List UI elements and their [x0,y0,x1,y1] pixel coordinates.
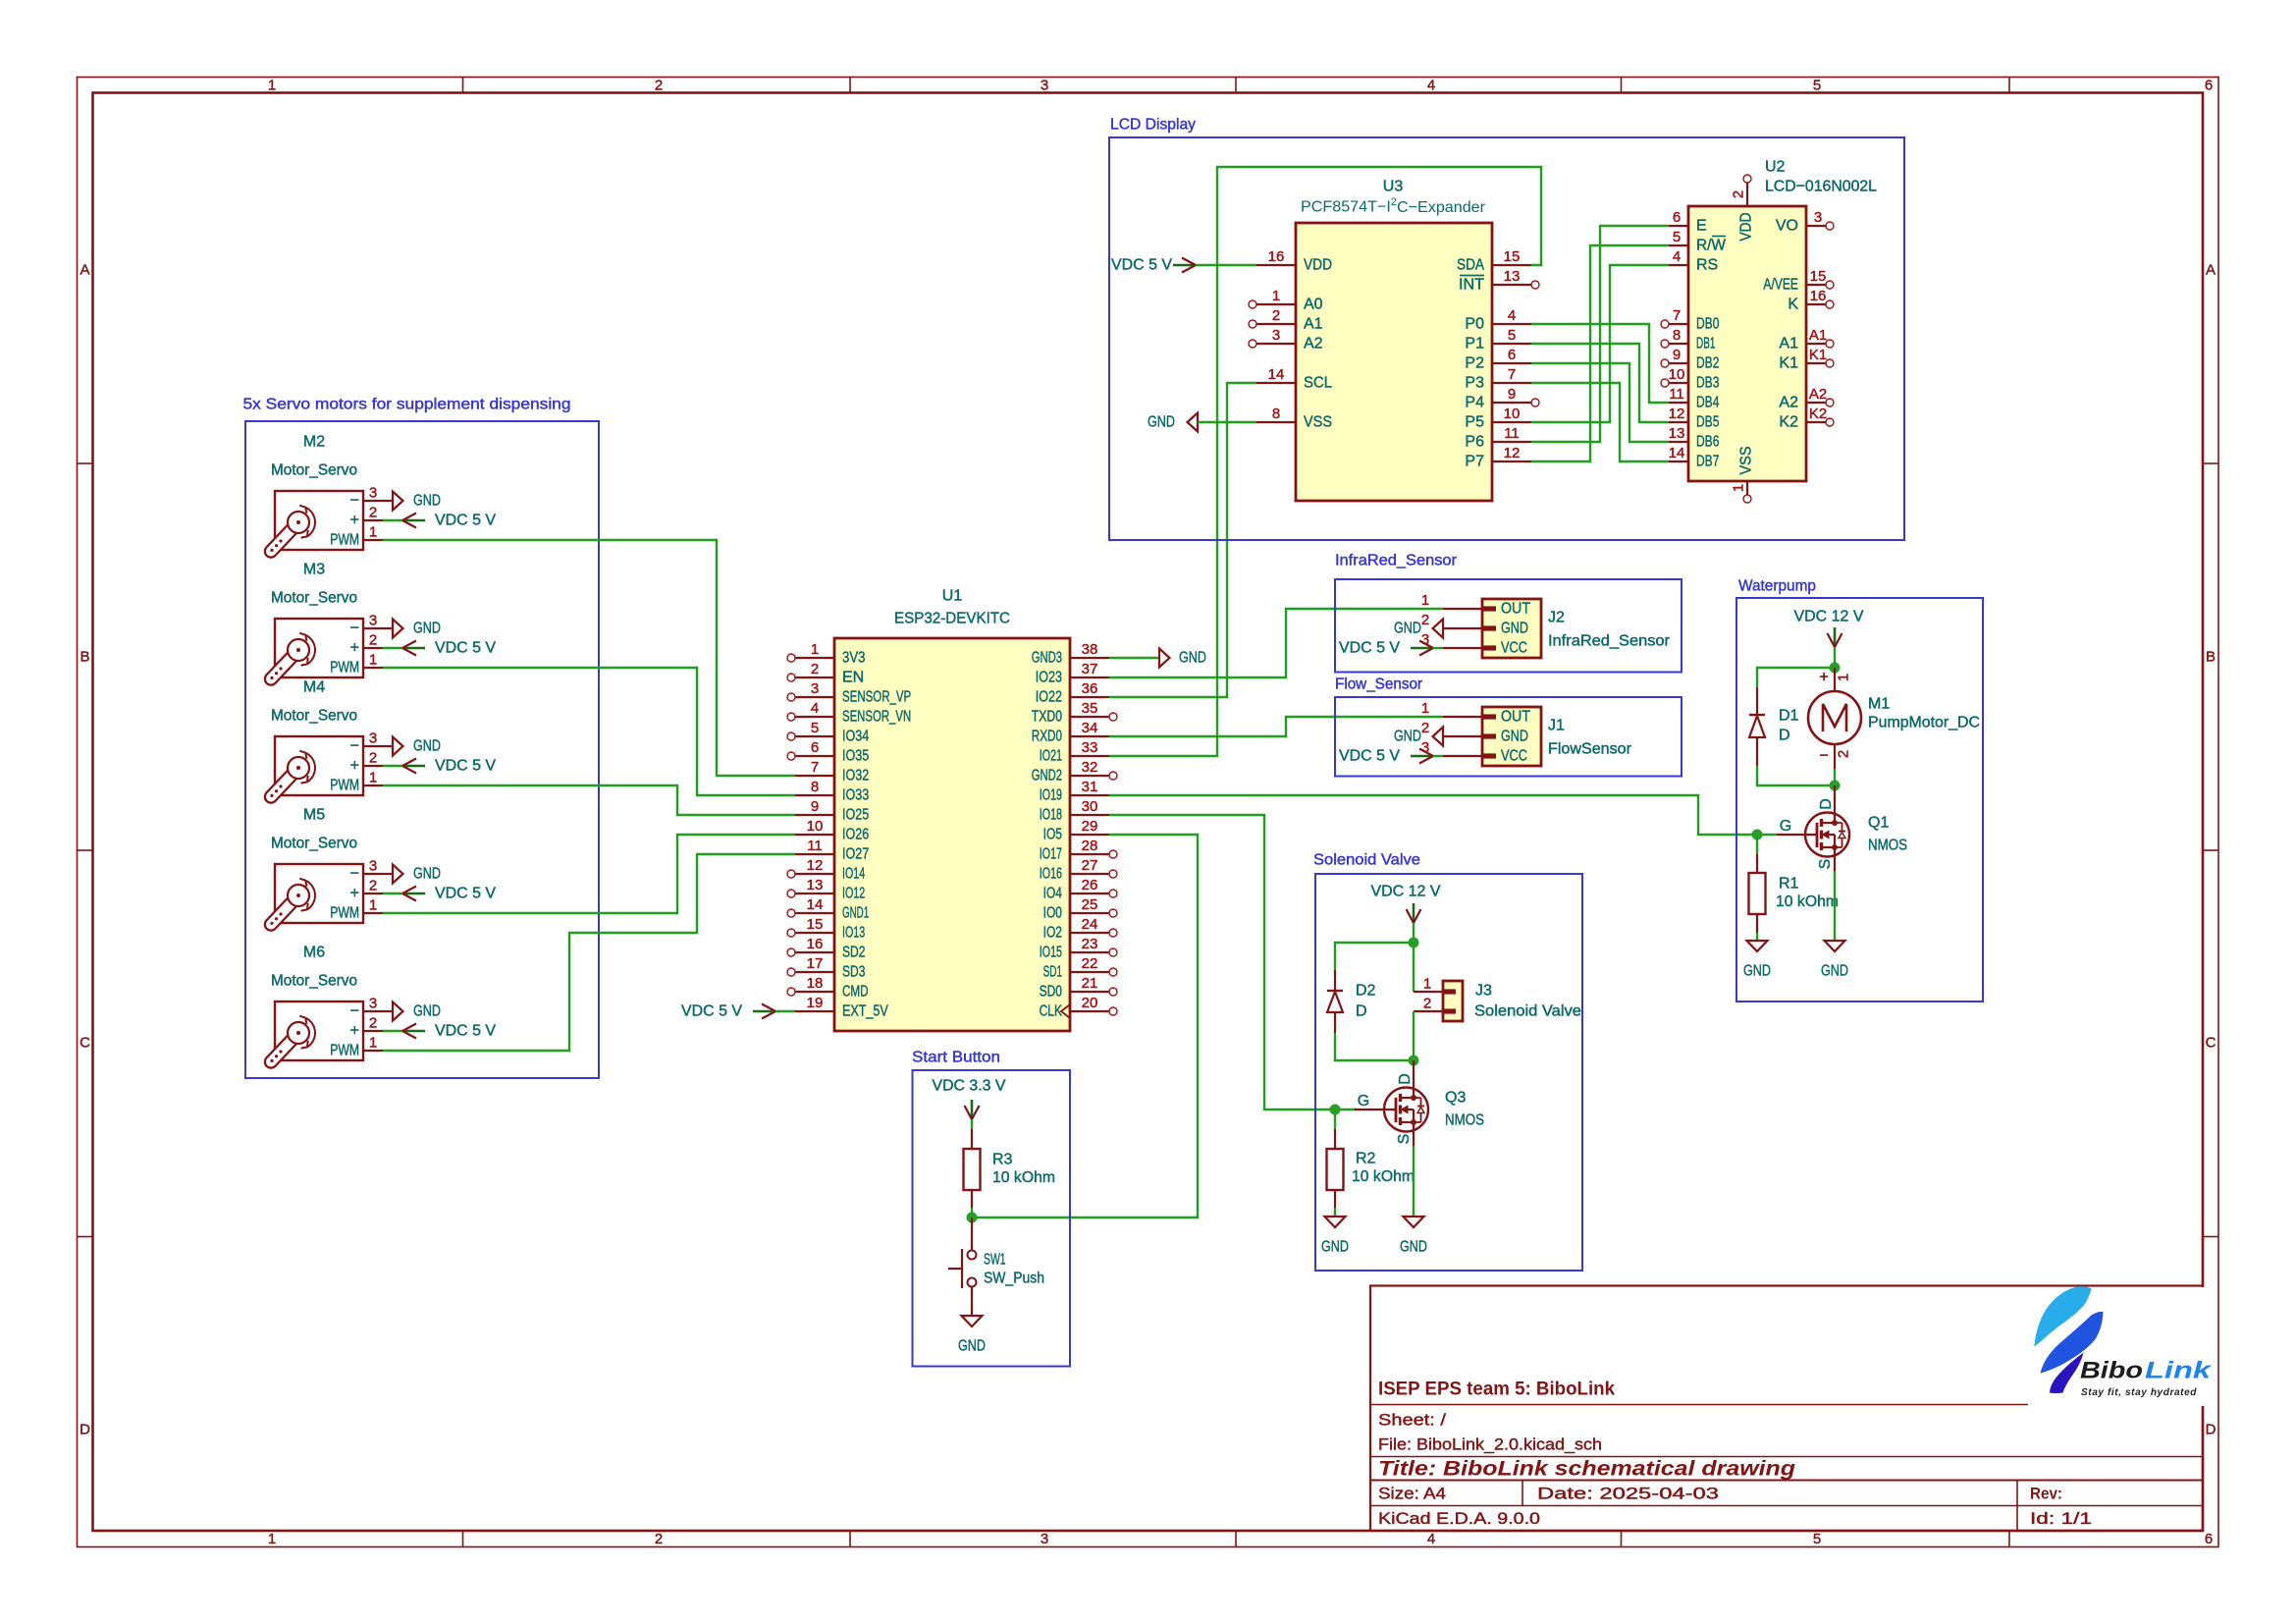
U3 pin 1 A0 [1249,288,1323,313]
svg-text:2: 2 [1836,750,1852,758]
svg-text:J3: J3 [1475,983,1492,1000]
svg-text:26: 26 [1082,877,1098,893]
VDC 5 V power symbol at U3 VDD [1111,257,1196,274]
svg-text:SW1: SW1 [984,1252,1006,1269]
svg-text:K1: K1 [1809,347,1827,363]
svg-text:B: B [2206,649,2216,666]
svg-text:11: 11 [807,838,823,854]
svg-text:PWM: PWM [330,660,359,677]
svg-text:G: G [1780,818,1791,835]
svg-text:4: 4 [1427,1531,1435,1547]
svg-text:R2: R2 [1356,1151,1376,1167]
svg-text:S: S [1817,859,1834,870]
svg-text:KiCad E.D.A. 9.0.0: KiCad E.D.A. 9.0.0 [1378,1509,1540,1528]
svg-text:9: 9 [1673,347,1681,363]
svg-text:+: + [350,513,359,529]
diode D2 [1327,970,1376,1033]
Solenoid Valve section box [1315,874,1582,1271]
wire U3 P2 to U2 DB6 [1531,363,1669,442]
U1 pin 21 SD0 [1040,975,1117,1001]
svg-text:10 kOhm: 10 kOhm [1776,893,1839,910]
BiboLink logo leaf indigo [2050,1353,2084,1393]
svg-text:RS: RS [1696,257,1718,274]
svg-text:12: 12 [807,857,824,874]
wire M5 PWM to U1 IO26 [383,835,795,913]
svg-text:16: 16 [1810,288,1827,304]
svg-text:3: 3 [369,858,377,875]
U1 pin 6 IO35 [787,739,869,765]
svg-text:VDC 12 V: VDC 12 V [1371,884,1441,900]
svg-text:GND: GND [413,493,441,510]
U3 pin 15 SDA [1457,248,1531,274]
svg-text:2: 2 [369,505,377,521]
wire U1 IO5 to start button node [972,835,1198,1218]
motor M1 PumpMotor_DC [1808,668,1980,769]
svg-text:−: − [350,866,359,883]
Waterpump section box [1736,598,1983,1001]
svg-text:M1: M1 [1868,696,1890,713]
svg-text:15: 15 [1810,268,1827,285]
svg-text:P5: P5 [1465,414,1484,431]
svg-text:1: 1 [1272,288,1280,304]
VDC 5 V power symbol at M5 pin 2 [402,886,496,902]
svg-text:10 kOhm: 10 kOhm [992,1169,1055,1186]
svg-text:GND: GND [1179,650,1206,667]
svg-text:SW_Push: SW_Push [984,1271,1044,1287]
svg-text:SCL: SCL [1304,375,1332,392]
svg-text:1: 1 [1421,592,1429,609]
VDC 5 V power symbol at J2 VCC [1339,640,1433,657]
svg-text:1: 1 [1731,484,1747,492]
VDC 5 V power symbol at U1 EXT_5V [681,1003,775,1020]
svg-text:B: B [80,649,89,666]
resistor R1 [1749,854,1840,933]
wire Q3 gate junction to R2 [1334,1110,1336,1129]
BiboLink logo leaf light blue [2035,1286,2092,1346]
LCD Display section box [1109,137,1904,540]
svg-text:9: 9 [1508,386,1516,403]
svg-text:5: 5 [1508,327,1516,344]
svg-text:23: 23 [1082,936,1098,952]
svg-text:10: 10 [1504,406,1521,422]
connector J1 FlowSensor body [1421,700,1632,766]
svg-text:Stay fit, stay hydrated: Stay fit, stay hydrated [2081,1386,2197,1398]
wire U3 P1 to U2 DB5 [1531,344,1669,422]
svg-text:D: D [1779,728,1790,744]
svg-text:A2: A2 [1779,395,1798,411]
U2 pin A1 A1 [1779,327,1834,352]
svg-text:VDC 5 V: VDC 5 V [681,1003,742,1020]
svg-text:OUT: OUT [1501,709,1530,726]
transistor Q1 NMOS [1777,798,1907,869]
U1 pin 1 3V3 [787,641,865,667]
svg-text:InfraRed_Sensor: InfraRed_Sensor [1548,633,1671,650]
svg-text:3: 3 [1814,209,1822,226]
svg-text:5: 5 [1673,229,1681,245]
svg-text:R/W: R/W [1696,238,1727,254]
svg-text:4: 4 [1427,78,1435,94]
junction R3-SW1-IO5 [967,1213,978,1223]
wire U3 P0 to U2 DB4 [1531,324,1669,403]
GND power symbol at M4 pin 3 [383,737,441,756]
wire R1 to GND [1756,933,1758,941]
svg-text:Id: 1/1: Id: 1/1 [2030,1509,2092,1528]
svg-text:ISEP EPS team 5: BiboLink: ISEP EPS team 5: BiboLink [1378,1380,1615,1400]
svg-text:35: 35 [1082,700,1098,717]
svg-text:8: 8 [1673,327,1681,344]
svg-text:12: 12 [1669,406,1685,422]
svg-text:K2: K2 [1809,406,1827,422]
svg-text:PWM: PWM [330,905,359,922]
svg-text:14: 14 [1669,445,1685,461]
wire R3 to junction [971,1208,973,1218]
svg-text:GND: GND [413,866,441,883]
U2 pin 3 VO [1776,209,1834,235]
VDC 12 V power symbol waterpump [1794,609,1864,648]
U2 pin 7 DB0 [1661,307,1719,333]
wire VDC 12 V to solenoid node [1413,923,1415,943]
svg-text:−: − [350,1003,359,1020]
svg-text:32: 32 [1082,759,1098,776]
svg-text:DB2: DB2 [1696,355,1719,372]
svg-text:+: + [350,1023,359,1040]
U1 pin 31 IO19 [1040,779,1109,804]
svg-text:GND: GND [1394,621,1421,637]
svg-text:CMD: CMD [842,984,869,1001]
svg-text:U1: U1 [942,588,963,605]
svg-text:E: E [1696,218,1707,235]
svg-text:DB1: DB1 [1696,336,1715,352]
svg-text:2: 2 [811,661,819,677]
servo motor M3 [270,562,383,680]
U3 pin 9 P4 [1465,386,1539,411]
U3 pin 8 VSS [1256,406,1332,431]
svg-text:SENSOR_VN: SENSOR_VN [842,709,911,726]
U2 pin 9 DB2 [1661,347,1719,372]
svg-text:VDD: VDD [1304,257,1332,274]
svg-text:VCC: VCC [1501,640,1527,657]
wire U3 P7 to U2 R/W [1531,245,1669,461]
svg-text:DB5: DB5 [1696,414,1719,431]
svg-text:11: 11 [1669,386,1684,403]
svg-text:Size: A4: Size: A4 [1378,1485,1446,1503]
svg-text:GND: GND [413,621,441,637]
svg-text:U3: U3 [1383,179,1404,195]
wire M4 pin 2 to VDC 5 V [383,765,402,767]
svg-text:1: 1 [369,652,377,669]
svg-text:6: 6 [811,739,819,756]
svg-text:8: 8 [811,779,819,795]
wire U1 IO18 to Q3 gate [1109,815,1357,1110]
wire node 2 to Q1 drain [1834,785,1836,813]
svg-text:18: 18 [807,975,824,992]
svg-text:A/VEE: A/VEE [1763,277,1798,294]
svg-text:6: 6 [2205,1531,2213,1547]
wire SW1 to GND [971,1287,973,1317]
wire U1 RXD0 to J1 OUT [1109,717,1443,736]
svg-text:IO16: IO16 [1040,866,1062,883]
svg-text:Solenoid Valve: Solenoid Valve [1474,1003,1581,1020]
svg-text:Start Button: Start Button [912,1050,1000,1066]
GND power symbol below R1 [1743,941,1771,980]
svg-text:IO0: IO0 [1043,905,1062,922]
svg-text:P3: P3 [1465,375,1484,392]
svg-text:1: 1 [268,78,276,94]
U1 pin 30 IO18 [1040,798,1109,824]
GND power symbol at M2 pin 3 [383,492,441,511]
svg-text:15: 15 [807,916,824,933]
svg-text:PWM: PWM [330,532,359,549]
svg-text:5: 5 [1813,78,1821,94]
svg-text:D: D [1818,798,1835,810]
U2 pin 15 A/VEE [1763,268,1834,294]
svg-text:Date: 2025-04-03: Date: 2025-04-03 [1537,1485,1719,1503]
wire M6 pin 2 to VDC 5 V [383,1030,402,1032]
U2 pin 12 DB5 [1669,406,1720,431]
svg-text:A1: A1 [1779,336,1798,352]
svg-text:IO18: IO18 [1040,807,1062,824]
svg-text:13: 13 [807,877,824,893]
U1 pin 34 RXD0 [1032,720,1109,745]
U2 pin 10 DB3 [1661,366,1719,392]
svg-text:IO23: IO23 [1036,670,1062,686]
svg-text:GND3: GND3 [1032,650,1062,667]
wire M2 PWM to U1 IO32 [383,540,795,776]
svg-text:2: 2 [1423,996,1431,1012]
svg-text:D: D [2206,1422,2216,1438]
svg-text:PumpMotor_DC: PumpMotor_DC [1868,715,1980,731]
svg-text:M4: M4 [303,679,325,696]
U1 pin 20 CLK [1040,995,1117,1020]
svg-text:3: 3 [1041,78,1048,94]
svg-text:A: A [2206,262,2216,279]
wire node to D2 cathode [1335,943,1414,970]
U1 pin 15 IO13 [787,916,865,942]
wire U1 GND3 to GND [1109,657,1159,659]
U1 pin 18 CMD [787,975,869,1001]
U1 pin 14 GND1 [787,896,869,922]
svg-text:5x Servo motors for supplement: 5x Servo motors for supplement dispensin… [243,397,571,413]
wire VDC 12 V to node [1834,647,1836,668]
svg-text:7: 7 [1508,366,1516,383]
GND power symbol at M5 pin 3 [383,865,441,884]
U1 pin 37 IO23 [1036,661,1109,686]
wire Q3 source to GND [1413,1132,1415,1147]
svg-text:7: 7 [1673,307,1681,324]
svg-text:+: + [350,758,359,775]
U1 pin 25 IO0 [1043,896,1117,922]
svg-text:31: 31 [1082,779,1098,795]
resistor R2 [1327,1129,1415,1208]
wire Q1 gate junction to R1 [1756,835,1758,854]
svg-text:+: + [1819,670,1828,686]
svg-text:14: 14 [1268,366,1285,383]
wire node 2 to Q3 drain [1413,1060,1415,1088]
svg-text:GND: GND [958,1338,986,1355]
svg-text:10: 10 [807,818,824,835]
svg-text:2: 2 [369,878,377,894]
U1 pin 19 EXT_5V [795,995,888,1020]
svg-text:EN: EN [842,670,864,686]
U2 pin 11 DB4 [1669,386,1719,411]
wire M3 PWM to U1 IO33 [383,668,795,795]
svg-text:3: 3 [1041,1531,1048,1547]
svg-text:P4: P4 [1465,395,1484,411]
svg-text:D: D [1356,1003,1367,1020]
svg-text:14: 14 [807,896,824,913]
svg-text:S: S [1396,1134,1413,1145]
diode D1 [1749,687,1799,766]
svg-text:IO25: IO25 [842,807,869,824]
U3 pin 16 VDD [1256,248,1332,274]
U1 pin 36 IO22 [1036,680,1109,706]
svg-text:6: 6 [1673,209,1681,226]
wire U3 P3 to U2 DB7 [1531,383,1669,461]
wire Q1 source to GND [1834,857,1836,872]
title block row dividers [1370,1404,2203,1406]
svg-text:22: 22 [1082,955,1098,972]
svg-text:IO34: IO34 [842,729,869,745]
svg-text:−: − [350,738,359,755]
wire U3 P6 to U2 E [1531,226,1669,442]
U1 pin 16 SD2 [787,936,865,961]
resistor R3 [964,1129,1056,1208]
InfraRed_Sensor section box [1335,579,1682,673]
svg-text:11: 11 [1504,425,1520,442]
svg-text:M6: M6 [303,945,325,961]
svg-text:VDC 5 V: VDC 5 V [435,758,496,775]
svg-text:K2: K2 [1779,414,1798,431]
GND power symbol at U1 GND3 [1159,649,1206,668]
connector J3 Solenoid Valve body [1414,976,1581,1022]
svg-text:D2: D2 [1356,983,1376,1000]
wire R2 to GND [1334,1208,1336,1217]
svg-text:GND2: GND2 [1032,768,1062,785]
U3 pin 14 SCL [1256,366,1332,392]
svg-text:37: 37 [1082,661,1098,677]
svg-text:17: 17 [807,955,824,972]
VDC 3.3 V power symbol [933,1078,1006,1120]
U1 pin 17 SD3 [787,955,865,981]
svg-text:38: 38 [1082,641,1098,658]
svg-text:DB3: DB3 [1696,375,1719,392]
U3 pin 6 P2 [1465,347,1531,372]
svg-text:29: 29 [1082,818,1098,835]
wire M2 pin 2 to VDC 5 V [383,519,402,521]
svg-text:ESP32-DEVKITC: ESP32-DEVKITC [894,611,1010,627]
svg-text:SDA: SDA [1457,257,1484,274]
U2 pin K2 K2 [1779,406,1834,431]
svg-text:15: 15 [1504,248,1521,265]
svg-text:VDC 12 V: VDC 12 V [1794,609,1864,625]
svg-text:13: 13 [1504,268,1521,285]
svg-text:K: K [1788,297,1798,313]
U1 pin 9 IO25 [795,798,869,824]
U1 pin 27 IO16 [1040,857,1117,883]
frame row ticks [78,462,93,464]
svg-text:D: D [80,1422,90,1438]
servo motor M6 [270,945,383,1063]
svg-text:GND: GND [1148,414,1175,431]
svg-text:21: 21 [1082,975,1098,992]
junction VDC12-M1-D1 [1830,663,1841,674]
wire M6 PWM to U1 IO27 [383,854,795,1051]
wire M3 pin 2 to VDC 5 V [383,647,402,649]
U1 pin 7 IO32 [795,759,869,785]
svg-text:2: 2 [1421,720,1429,736]
svg-text:InfraRed_Sensor: InfraRed_Sensor [1335,553,1458,569]
svg-text:VDC 5 V: VDC 5 V [1339,748,1400,765]
junction Q3 gate - R2 [1330,1105,1341,1115]
wire VDC 5 V to J2 VCC [1433,647,1443,649]
GND power symbol below SW1 [958,1316,986,1355]
svg-text:U2: U2 [1765,159,1786,176]
junction J3-D2-Q3 [1409,1056,1419,1066]
wire J3 pin 2 to node 2 [1413,1011,1415,1060]
VDC 5 V power symbol at J1 VCC [1339,748,1433,765]
U1 pin 28 IO17 [1040,838,1117,863]
svg-text:EXT_5V: EXT_5V [842,1003,888,1020]
svg-text:C: C [2206,1035,2216,1052]
svg-text:Title: BiboLink schematical dr: Title: BiboLink schematical drawing [1378,1457,1795,1481]
svg-text:Motor_Servo: Motor_Servo [271,836,357,852]
svg-text:GND1: GND1 [842,905,869,922]
svg-text:2: 2 [369,632,377,649]
svg-text:VDC 3.3 V: VDC 3.3 V [933,1078,1006,1095]
svg-text:GND: GND [1743,963,1771,980]
svg-text:LCD Display: LCD Display [1110,117,1196,134]
U3 pin 4 P0 [1465,307,1531,333]
servo section box [245,421,599,1078]
wire U1 IO23 to J2 OUT [1109,609,1443,677]
svg-text:+: + [350,640,359,657]
transistor Q3 NMOS [1355,1073,1484,1144]
svg-text:GND: GND [413,1003,441,1020]
svg-text:IO35: IO35 [842,748,869,765]
svg-text:1: 1 [1836,674,1852,681]
svg-text:J1: J1 [1548,718,1565,734]
GND power symbol below R2 [1321,1217,1349,1256]
svg-text:Motor_Servo: Motor_Servo [271,973,357,990]
svg-text:+: + [350,886,359,902]
svg-text:M3: M3 [303,562,325,578]
LCD display U2 LCD-016N002L body [1688,159,1877,482]
svg-text:P1: P1 [1465,336,1484,352]
wire D2 anode to node 2 [1335,1033,1414,1060]
U2 pin 6 E [1669,209,1707,235]
svg-text:19: 19 [807,995,824,1011]
U2 pin 2 VDD top [1731,175,1755,242]
svg-text:2: 2 [655,78,663,94]
wire GND to U3 VSS [1198,421,1256,423]
svg-text:1: 1 [369,524,377,541]
svg-text:13: 13 [1669,425,1685,442]
GND power symbol at M6 pin 3 [383,1002,441,1021]
wire U1 IO19 to Q1 gate [1109,795,1777,835]
VDC 12 V power symbol solenoid [1371,884,1441,924]
svg-text:2: 2 [1272,307,1280,324]
GND power symbol at J1 GND [1394,728,1443,746]
BiboLink logo leaf royal blue [2041,1312,2104,1374]
svg-text:IO5: IO5 [1043,827,1062,843]
junction M1-D1-Q1 [1830,781,1841,791]
U2 pin 4 RS [1669,248,1718,274]
U1 pin 12 IO14 [787,857,865,883]
svg-text:A2: A2 [1809,386,1827,403]
svg-text:VDC 5 V: VDC 5 V [435,513,496,529]
U1 pin 33 IO21 [1040,739,1109,765]
U1 pin 29 IO5 [1043,818,1109,843]
